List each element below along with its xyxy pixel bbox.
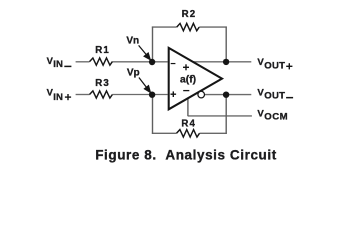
- svg-text:Vn: Vn: [126, 36, 139, 47]
- svg-text:OUT: OUT: [264, 60, 285, 71]
- svg-text:Vp: Vp: [127, 68, 140, 79]
- svg-text:Figure 8. Analysis Circuit: Figure 8. Analysis Circuit: [95, 148, 277, 163]
- svg-text:OUT: OUT: [264, 91, 285, 102]
- svg-text:a(f): a(f): [180, 74, 196, 85]
- svg-text:R1: R1: [95, 45, 110, 56]
- svg-text:R2: R2: [182, 9, 197, 20]
- svg-text:OCM: OCM: [264, 111, 288, 122]
- svg-text:IN: IN: [53, 59, 63, 70]
- svg-text:R4: R4: [181, 119, 196, 130]
- svg-text:R3: R3: [95, 78, 110, 89]
- svg-text:IN: IN: [53, 92, 63, 103]
